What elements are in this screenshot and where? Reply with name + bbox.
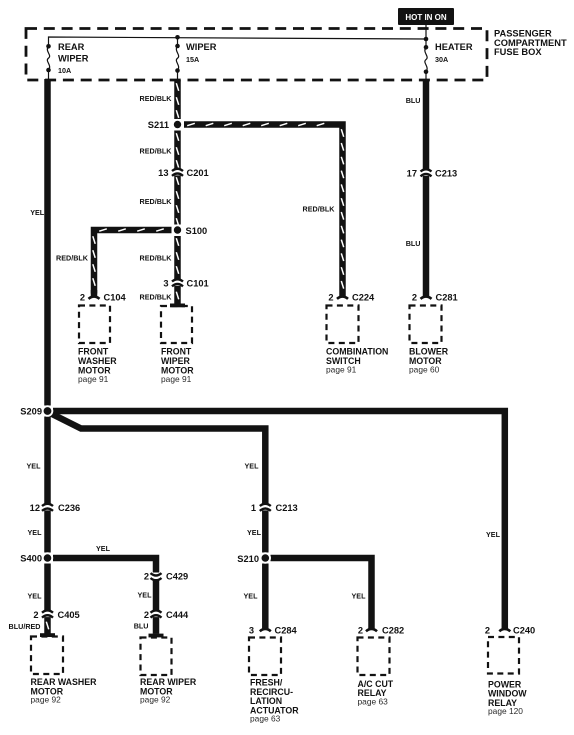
connector C213 pin 1 [251,503,298,513]
svg-text:3: 3 [163,278,168,288]
svg-text:page 120: page 120 [488,706,523,716]
svg-text:30A: 30A [435,55,448,64]
rear washer motor box [31,637,98,705]
svg-text:RED/BLK: RED/BLK [140,253,173,262]
svg-text:13: 13 [158,168,168,178]
svg-text:page 63: page 63 [358,697,389,707]
svg-text:YEL: YEL [138,591,153,600]
wire RED/BLK S211 to C201 [174,131,181,169]
svg-text:RED/BLK: RED/BLK [303,205,336,214]
svg-text:page 60: page 60 [409,365,440,375]
svg-text:WIPER: WIPER [161,356,190,366]
connector C282 pin 2 at a/c cut relay [358,625,404,635]
connector C213 pin 17 [407,168,458,178]
svg-text:RED/BLK: RED/BLK [140,147,173,156]
splice S400 [20,552,53,563]
wire RED/BLK wiper fuse to S211 [174,80,181,119]
svg-text:YEL: YEL [28,528,43,537]
svg-text:FRONT: FRONT [161,347,192,357]
svg-text:page 91: page 91 [78,374,109,384]
svg-text:BLU: BLU [406,239,421,248]
svg-text:page 63: page 63 [250,714,281,724]
svg-text:S210: S210 [237,554,259,564]
svg-text:C101: C101 [187,278,209,288]
svg-text:page 92: page 92 [31,695,62,705]
svg-text:C444: C444 [166,610,189,620]
connector C224 pin 2 at combination switch [328,293,375,303]
wire YEL S400 right then down to C429 [53,558,156,573]
svg-text:YEL: YEL [245,461,260,470]
wire RED/BLK C101 to front wiper motor [174,286,181,304]
wire from HOT IN ON into fuse box [425,25,427,39]
connector C201 pin 13 [158,168,209,178]
svg-text:10A: 10A [58,66,71,75]
svg-text:RED/BLK: RED/BLK [140,197,173,206]
svg-text:YEL: YEL [352,592,367,601]
svg-text:HEATER: HEATER [435,42,473,52]
wire YEL C236 to S400 [44,510,51,552]
svg-text:YEL: YEL [244,592,259,601]
connector C101 pin 3 [163,278,208,288]
wire YEL S209 down to C236 [44,417,51,504]
wire RED/BLK S211 right then down to C224 [184,125,343,298]
svg-text:WASHER: WASHER [78,356,117,366]
wire YEL S210 right then down to C282 [271,558,372,630]
fuse supply bus wire [49,37,427,46]
wire YEL S210 down to C284 [262,564,269,630]
connector C236 pin 12 [30,503,81,513]
svg-text:2: 2 [144,571,149,581]
rear wiper motor box [140,638,197,705]
wire YEL C429 to C444 [153,581,160,611]
connector C429 pin 2 [144,571,188,581]
wire YEL rear wiper fuse down to S209 [44,79,51,406]
connector C281 pin 2 at blower motor [412,293,458,303]
svg-text:C281: C281 [436,293,458,303]
connector C104 pin 2 at front washer motor [80,290,127,303]
connector C284 pin 3 at fresh/recirculation actuator [249,625,298,635]
svg-text:page 92: page 92 [140,695,171,705]
combination switch box [326,306,388,375]
svg-text:2: 2 [33,610,38,620]
wire YEL S400 down to C405 [44,564,51,611]
front washer motor box [78,306,117,384]
a/c cut relay box [358,638,394,707]
wire RED/BLK S100 left then down to C104 [94,230,172,294]
wire BLU/RED C405 to rear washer motor [44,617,51,633]
svg-text:2: 2 [144,610,149,620]
svg-text:REAR: REAR [58,42,85,52]
wire YEL C213 to S210 [262,510,269,552]
svg-text:C224: C224 [352,293,375,303]
splice S100 [172,224,207,236]
junction node WIPER fuse [175,35,180,40]
svg-text:WIPER: WIPER [58,54,89,64]
svg-text:2: 2 [412,293,417,303]
splice S210 [237,552,271,564]
svg-text:S209: S209 [20,407,42,417]
svg-text:page 91: page 91 [326,365,357,375]
svg-text:YEL: YEL [27,461,42,470]
svg-text:BLU: BLU [406,96,421,105]
fuse HEATER 30A [425,39,427,47]
splice S211 [148,119,183,130]
fuse WIPER 15A [177,37,179,46]
svg-text:2: 2 [485,625,490,635]
terminal bar rear washer motor [40,633,55,637]
svg-text:2: 2 [80,293,85,303]
svg-text:YEL: YEL [30,208,45,217]
svg-text:C213: C213 [435,168,457,178]
wire RED/BLK C201 to S100 [174,175,181,224]
svg-text:C236: C236 [58,503,80,513]
svg-text:17: 17 [407,168,417,178]
passenger compartment fuse box [26,29,487,81]
svg-text:C104: C104 [104,293,127,303]
fuse REAR WIPER 10A [46,42,89,80]
svg-text:C213: C213 [276,503,298,513]
svg-text:RED/BLK: RED/BLK [56,253,89,262]
svg-text:12: 12 [30,503,40,513]
svg-text:COMBINATION: COMBINATION [326,347,388,357]
svg-text:C282: C282 [382,625,404,635]
svg-text:WIPER: WIPER [186,42,217,52]
svg-text:C201: C201 [187,168,209,178]
svg-text:15A: 15A [186,55,199,64]
fresh/recirculation actuator box [249,638,299,724]
svg-text:YEL: YEL [96,544,111,553]
wire YEL S209 diagonal to C213 branch [51,414,265,504]
svg-text:YEL: YEL [28,592,43,601]
svg-text:C429: C429 [166,571,188,581]
svg-text:page 91: page 91 [161,374,192,384]
front wiper motor box [161,306,194,384]
svg-text:C405: C405 [58,610,80,620]
wire BLU C213 to C281 [423,176,430,297]
connector C240 pin 2 at power window relay [485,625,535,635]
svg-text:C284: C284 [275,625,298,635]
svg-text:S400: S400 [20,554,42,564]
HOT IN ON box [398,8,454,25]
svg-text:BLU: BLU [134,622,149,631]
wire RED/BLK S100 to C101 [174,236,181,279]
svg-text:FRONT: FRONT [78,347,109,357]
connector C444 pin 2 [144,610,189,620]
junction node HEATER fuse [424,37,429,42]
svg-text:BLOWER: BLOWER [409,347,449,357]
svg-text:C240: C240 [513,625,535,635]
svg-text:S211: S211 [148,120,169,130]
svg-text:HOT IN ON: HOT IN ON [405,13,447,22]
svg-text:1: 1 [251,503,256,513]
wire BLU C444 to rear wiper motor [153,617,160,634]
svg-text:3: 3 [249,625,254,635]
svg-text:YEL: YEL [247,528,262,537]
svg-text:RED/BLK: RED/BLK [140,94,173,103]
svg-text:S100: S100 [186,226,208,236]
splice S209 [20,405,53,417]
wire YEL S209 right to power window relay [53,411,505,630]
svg-text:BLU/RED: BLU/RED [9,622,41,631]
svg-text:FUSE BOX: FUSE BOX [494,47,542,57]
power window relay box [488,637,527,716]
blower motor box [409,306,449,375]
terminal bar front wiper motor [170,304,185,308]
terminal bar rear wiper motor [149,634,164,638]
svg-text:YEL: YEL [486,530,501,539]
wire BLU heater fuse to C213 [423,81,430,169]
svg-text:RED/BLK: RED/BLK [140,293,173,302]
svg-text:2: 2 [328,293,333,303]
svg-text:2: 2 [358,625,363,635]
connector C405 pin 2 [33,610,79,620]
